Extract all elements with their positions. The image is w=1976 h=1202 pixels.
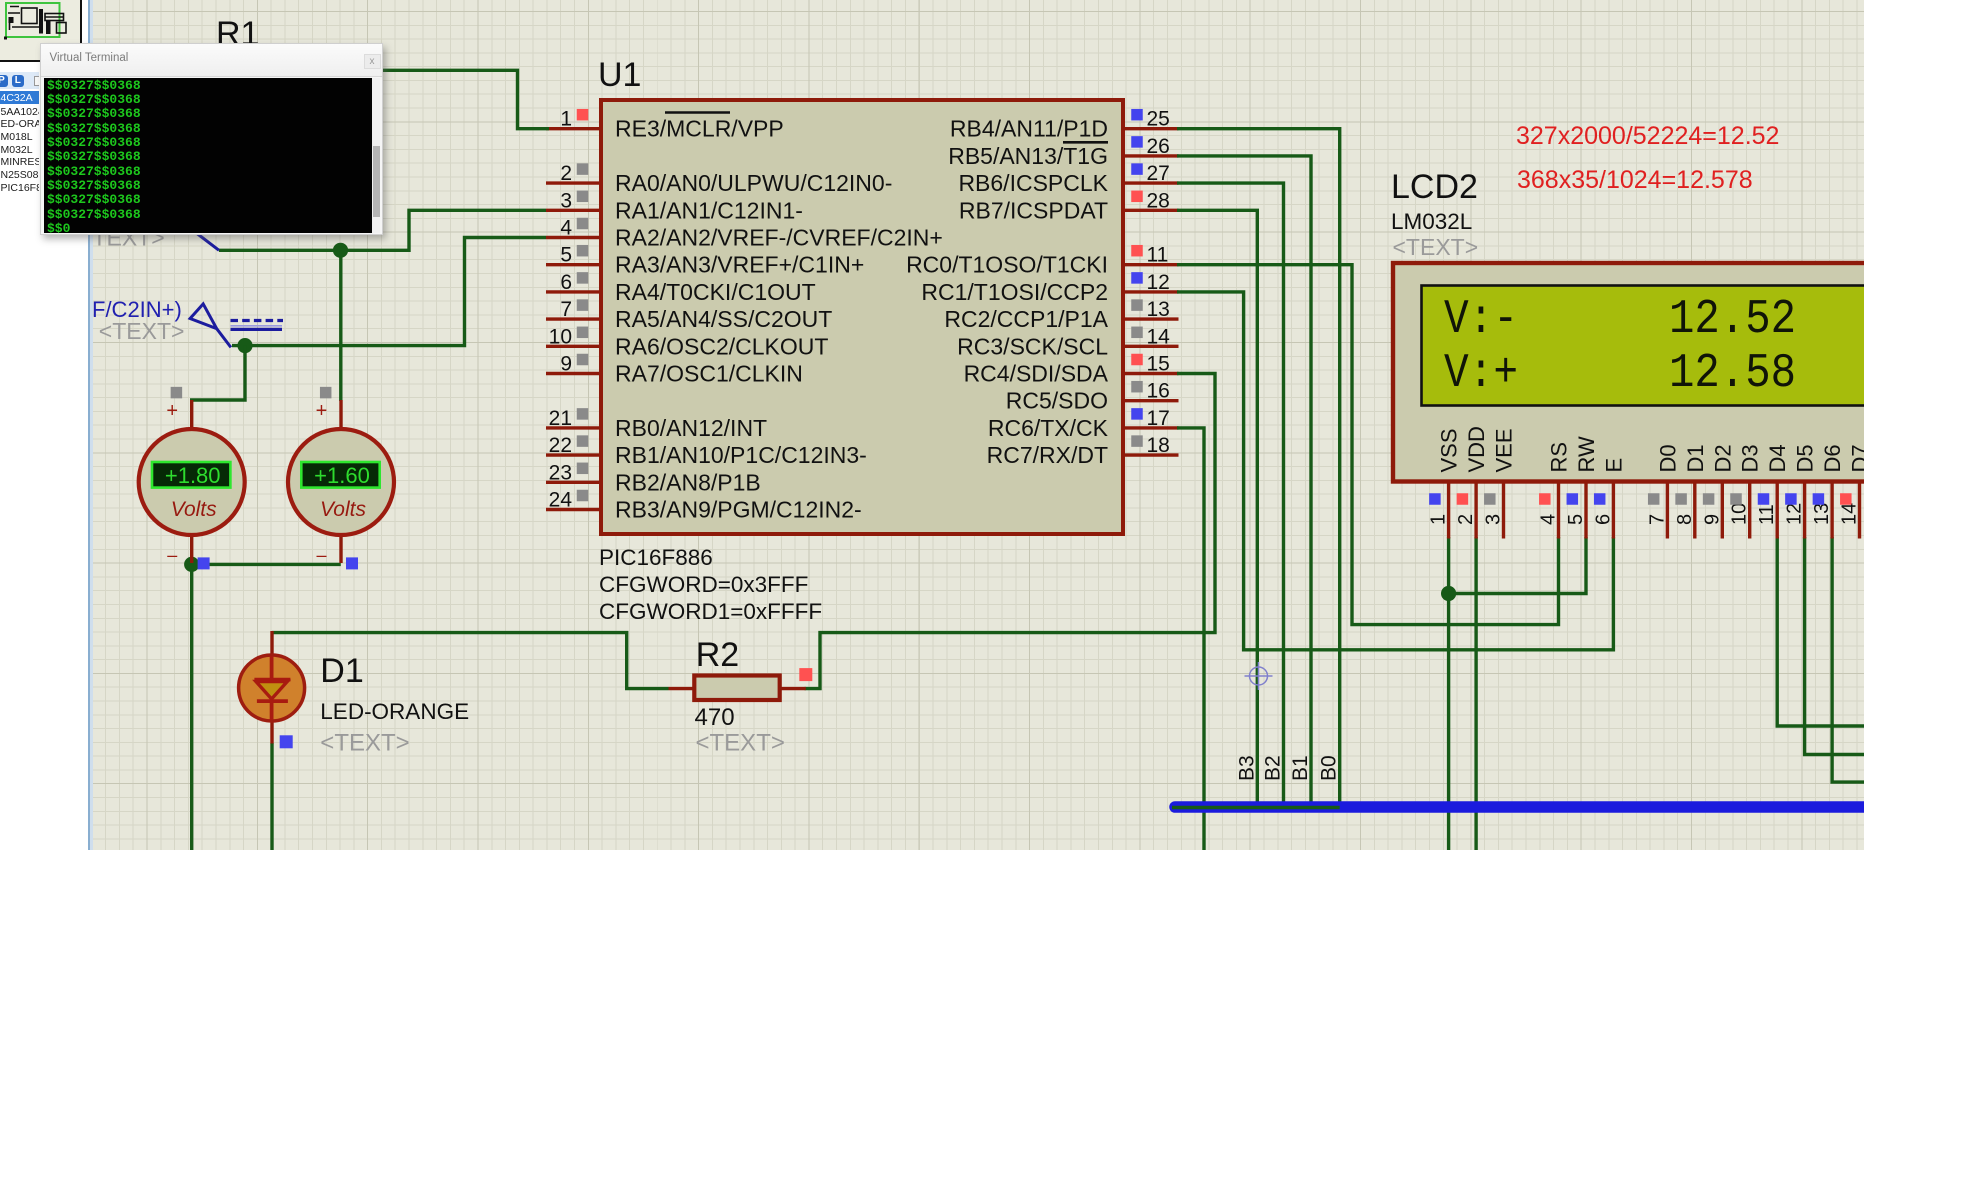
probe P2 triangle — [190, 304, 231, 348]
voltmeter V1 body — [139, 429, 245, 535]
svg-text:3: 3 — [1483, 514, 1505, 525]
svg-text:17: 17 — [1147, 407, 1170, 430]
left edge blue strip — [88, 0, 94, 850]
voltmeter V2 display — [301, 462, 379, 488]
svg-text:RW: RW — [1574, 436, 1599, 472]
voltmeter V1 minus stub — [190, 536, 193, 563]
U1 pin 5 state square — [577, 245, 589, 257]
svg-text:RB1/AN10/P1C/C12IN3-: RB1/AN10/P1C/C12IN3- — [615, 442, 867, 468]
LCD pin 3 state square — [1484, 493, 1496, 505]
svg-text:RE3/MCLR/VPP: RE3/MCLR/VPP — [615, 116, 784, 142]
svg-text:RB6/ICSPCLK: RB6/ICSPCLK — [958, 170, 1108, 196]
U1 pin 15 state square — [1131, 354, 1143, 366]
U1 pin 15 stub — [1123, 372, 1179, 375]
probe P2 solid line highlight — [231, 325, 283, 327]
svg-text:25: 25 — [1147, 108, 1170, 131]
mcu U1 body — [601, 100, 1123, 534]
svg-text:LM032L: LM032L — [1391, 209, 1472, 234]
svg-text:RC0/T1OSO/T1CKI: RC0/T1OSO/T1CKI — [906, 252, 1108, 278]
voltmeter V1 minus square — [198, 557, 210, 569]
R2 pin state square — [799, 668, 812, 681]
svg-text:D2: D2 — [1710, 444, 1735, 472]
svg-text:RS: RS — [1547, 442, 1572, 473]
LCD pin 11 state square — [1758, 493, 1770, 505]
wire U1 pin3 net — [219, 210, 546, 250]
svg-text:<TEXT>: <TEXT> — [1393, 234, 1479, 260]
wire junction to voltmeter V2 plus — [339, 250, 342, 401]
wire R2 right to pin15 — [805, 374, 1216, 689]
LCD pin 12 state square — [1785, 493, 1797, 505]
svg-text:13: 13 — [1811, 503, 1833, 525]
LCD pin 1 state square — [1429, 493, 1441, 505]
parts list — [0, 89, 39, 259]
LCD pin VDD stub — [1474, 483, 1477, 539]
svg-text:RB5/AN13/T1G: RB5/AN13/T1G — [948, 143, 1108, 169]
U1 pin 2 state square — [577, 163, 589, 175]
LCD pin 5 state square — [1567, 493, 1579, 505]
svg-text:D7: D7 — [1848, 444, 1865, 472]
junction node pin4/V1 — [237, 338, 252, 353]
svg-text:RA5/AN4/SS/C2OUT: RA5/AN4/SS/C2OUT — [615, 306, 832, 332]
voltmeter V2 plus stub — [339, 400, 342, 428]
U1 pin 11 state square — [1131, 245, 1143, 257]
svg-text:D3: D3 — [1738, 444, 1763, 472]
svg-text:B3: B3 — [1235, 755, 1258, 781]
svg-text:LED-ORANGE: LED-ORANGE — [320, 699, 469, 724]
U1 pin 2 stub — [546, 181, 601, 184]
svg-text:26: 26 — [1147, 135, 1170, 158]
U1 pin 7 stub — [546, 317, 601, 320]
U1 pin 18 state square — [1131, 435, 1143, 447]
svg-text:3: 3 — [560, 189, 572, 212]
svg-text:22: 22 — [549, 434, 572, 457]
svg-text:U1: U1 — [598, 56, 641, 94]
U1 pin 3 state square — [577, 191, 589, 203]
U1 pin 28 stub — [1123, 209, 1179, 212]
wire U1 pin11 to LCD RS — [1177, 265, 1559, 625]
voltmeter V1 plus square — [171, 387, 183, 399]
svg-text:R2: R2 — [696, 636, 739, 674]
cursor crosshair — [1245, 662, 1273, 690]
led D1 symbol top bar — [254, 678, 290, 682]
led D1 symbol triangle — [256, 682, 287, 700]
voltmeter V1 display — [152, 462, 230, 488]
svg-text:5: 5 — [1565, 514, 1587, 525]
svg-text:VDD: VDD — [1464, 426, 1489, 472]
wire U1 pin28 to bus B3 — [1177, 210, 1257, 808]
svg-text:+: + — [166, 400, 178, 422]
svg-text:RA0/AN0/ULPWU/C12IN0-: RA0/AN0/ULPWU/C12IN0- — [615, 170, 892, 196]
svg-text:16: 16 — [1147, 380, 1170, 403]
U1 pin 27 state square — [1131, 163, 1143, 175]
LCD pin 9 state square — [1703, 493, 1715, 505]
svg-text:Volts: Volts — [320, 498, 366, 521]
svg-text:E: E — [1601, 458, 1626, 473]
svg-text:CFGWORD1=0xFFFF: CFGWORD1=0xFFFF — [599, 599, 822, 624]
svg-text:B0: B0 — [1318, 755, 1341, 781]
U1 pin 21 state square — [577, 408, 589, 420]
svg-text:PIC16F886: PIC16F886 — [599, 545, 713, 570]
svg-text:12.52: 12.52 — [1669, 293, 1796, 347]
svg-text:14: 14 — [1839, 503, 1861, 525]
wire U1 pin27 to bus B2 — [1177, 183, 1284, 808]
wire U1 pin4 net — [232, 238, 546, 346]
svg-text:D4: D4 — [1765, 444, 1790, 472]
LCD pin D7 stub — [1858, 483, 1861, 539]
svg-text:10: 10 — [549, 325, 572, 348]
U1 pin 9 stub — [546, 372, 601, 375]
lcd screen — [1422, 286, 1872, 406]
svg-text:RC1/T1OSI/CCP2: RC1/T1OSI/CCP2 — [921, 279, 1108, 305]
LCD pin RS stub — [1557, 483, 1560, 539]
voltmeter V2 body — [288, 429, 394, 535]
preview viewport green box — [6, 3, 60, 37]
LCD pin 8 state square — [1675, 493, 1687, 505]
wire U1 pin12 to LCD E — [1177, 292, 1613, 650]
svg-text:Volts: Volts — [171, 498, 217, 521]
svg-text:D6: D6 — [1820, 444, 1845, 472]
wire U1 pin17 down — [1177, 428, 1204, 851]
LCD pin D4 stub — [1775, 483, 1778, 539]
svg-text:2: 2 — [560, 162, 572, 185]
svg-text:RB2/AN8/P1B: RB2/AN8/P1B — [615, 469, 761, 495]
svg-text:28: 28 — [1147, 189, 1170, 212]
preview pane — [0, 0, 82, 62]
U1 pin 16 state square — [1131, 381, 1143, 393]
svg-text:RA6/OSC2/CLKOUT: RA6/OSC2/CLKOUT — [615, 333, 828, 359]
wire D1 cathode down — [270, 743, 273, 851]
U1 pin 17 stub — [1123, 426, 1179, 429]
svg-text:14: 14 — [1147, 325, 1171, 348]
svg-text:RC7/RX/DT: RC7/RX/DT — [987, 442, 1108, 468]
U1 pin 4 state square — [577, 218, 589, 230]
svg-text:4: 4 — [560, 217, 572, 240]
wire U1 pin25 to bus B0 — [1177, 129, 1340, 808]
svg-text:+: + — [316, 400, 328, 422]
LCD pin VEE stub — [1502, 483, 1505, 539]
svg-text:7: 7 — [560, 298, 572, 321]
svg-text:11: 11 — [1147, 244, 1169, 267]
U1 pin 23 state square — [577, 463, 589, 475]
svg-text:–: – — [167, 545, 177, 565]
svg-text:2: 2 — [1455, 514, 1477, 525]
wire U1 pin26 to bus B1 — [1177, 156, 1311, 808]
svg-text:327x2000/52224=12.52: 327x2000/52224=12.52 — [1516, 122, 1779, 150]
U1 pin 11 stub — [1123, 263, 1179, 266]
schematic grid canvas — [93, 0, 1864, 850]
U1 pin 22 state square — [577, 435, 589, 447]
probe P2 solid line — [231, 328, 283, 331]
voltmeter V1 plus stub — [190, 400, 193, 428]
U1 pin 14 state square — [1131, 327, 1143, 339]
D1 state square — [280, 735, 293, 748]
svg-text:6: 6 — [1592, 514, 1614, 525]
LCD pin 4 state square — [1539, 493, 1551, 505]
svg-text:12: 12 — [1147, 271, 1170, 294]
svg-text:RB3/AN9/PGM/C12IN2-: RB3/AN9/PGM/C12IN2- — [615, 497, 862, 523]
svg-text:13: 13 — [1147, 298, 1170, 321]
U1 pin 13 state square — [1131, 299, 1143, 311]
svg-text:8: 8 — [1674, 514, 1696, 525]
led D1 body — [239, 655, 305, 721]
svg-text:V:-: V:- — [1444, 293, 1518, 347]
Virtual Terminal window — [40, 43, 383, 235]
bus entry wire — [1172, 806, 1340, 809]
U1 pin 22 stub — [546, 453, 601, 456]
led D1 cathode stub — [270, 721, 273, 744]
svg-text:V:+: V:+ — [1444, 347, 1518, 401]
svg-text:RC3/SCK/SCL: RC3/SCK/SCL — [957, 333, 1108, 359]
wire voltmeter grounds — [192, 563, 341, 566]
LCD pin D3 stub — [1748, 483, 1751, 539]
LCD pin D5 stub — [1803, 483, 1806, 539]
U1 pin 27 stub — [1123, 181, 1179, 184]
svg-text:B1: B1 — [1289, 755, 1312, 781]
U1 pin 10 stub — [546, 345, 601, 348]
preview mini schematic — [8, 7, 66, 34]
svg-text:RA2/AN2/VREF-/CVREF/C2IN+: RA2/AN2/VREF-/CVREF/C2IN+ — [615, 225, 943, 251]
LCD pin VSS stub — [1447, 483, 1450, 539]
svg-text:RB0/AN12/INT: RB0/AN12/INT — [615, 415, 767, 441]
LCD pin D2 stub — [1721, 483, 1724, 539]
junction node VSS — [1441, 586, 1456, 601]
U1 pin 7 state square — [577, 299, 589, 311]
LCD pin 10 state square — [1730, 493, 1742, 505]
U1 pin 10 state square — [577, 327, 589, 339]
svg-text:7: 7 — [1646, 514, 1668, 525]
led D1 symbol cathode bar — [257, 699, 288, 703]
overline MCLR — [665, 111, 730, 114]
svg-text:RC4/SDI/SDA: RC4/SDI/SDA — [964, 361, 1109, 387]
LCD pin 14 state square — [1840, 493, 1852, 505]
U1 pin 26 state square — [1131, 136, 1143, 148]
svg-text:24: 24 — [549, 489, 573, 512]
voltmeter V2 plus square — [320, 387, 332, 399]
svg-text:RB7/ICSPDAT: RB7/ICSPDAT — [959, 197, 1108, 223]
svg-text:VEE: VEE — [1492, 428, 1517, 472]
LCD pin RW stub — [1584, 483, 1587, 539]
svg-text:12.58: 12.58 — [1669, 347, 1796, 401]
svg-text:4: 4 — [1538, 514, 1560, 525]
wire LCD D5 right — [1805, 537, 1865, 755]
LCD pin D0 stub — [1666, 483, 1669, 539]
U1 pin 14 stub — [1123, 345, 1179, 348]
svg-text:5: 5 — [560, 244, 572, 267]
svg-text:LCD2: LCD2 — [1391, 168, 1478, 206]
wire R1 to U1 pin1 — [375, 70, 549, 128]
voltmeter V2 minus stub — [339, 536, 342, 563]
wire LCD D4 right — [1777, 537, 1865, 726]
svg-text:12: 12 — [1784, 503, 1806, 525]
resistor R2 left lead — [669, 687, 696, 690]
svg-text:1: 1 — [560, 108, 572, 131]
svg-text:D1: D1 — [320, 652, 363, 690]
LCD pin 7 state square — [1648, 493, 1660, 505]
LCD pin 13 state square — [1813, 493, 1825, 505]
wire LCD VDD down — [1474, 537, 1477, 851]
svg-text:RC2/CCP1/P1A: RC2/CCP1/P1A — [944, 306, 1108, 332]
svg-text:<TEXT>: <TEXT> — [320, 730, 409, 757]
U1 pin 13 stub — [1123, 317, 1179, 320]
svg-text:9: 9 — [1701, 514, 1723, 525]
svg-text:18: 18 — [1147, 434, 1170, 457]
svg-text:RB4/AN11/P1D: RB4/AN11/P1D — [950, 116, 1108, 142]
wire junction to voltmeter V1 plus — [192, 346, 245, 401]
svg-text:B2: B2 — [1262, 755, 1285, 781]
overline T1G — [1063, 141, 1108, 144]
voltmeter V2 minus square — [346, 557, 358, 569]
LCD pin 6 state square — [1594, 493, 1606, 505]
U1 pin 12 state square — [1131, 272, 1143, 284]
svg-text:<TEXT>: <TEXT> — [99, 318, 185, 344]
svg-text:470: 470 — [695, 704, 735, 731]
U1 pin 1 stub — [546, 127, 601, 130]
U1 pin 3 stub — [546, 209, 601, 212]
svg-text:RA7/OSC1/CLKIN: RA7/OSC1/CLKIN — [615, 361, 803, 387]
svg-text:15: 15 — [1147, 353, 1170, 376]
svg-text:RA4/T0CKI/C1OUT: RA4/T0CKI/C1OUT — [615, 279, 816, 305]
svg-text:23: 23 — [549, 461, 572, 484]
svg-text:27: 27 — [1147, 162, 1170, 185]
wire gnd down — [190, 564, 193, 851]
U1 pin 25 state square — [1131, 109, 1143, 121]
led D1 symbol anode line — [270, 656, 274, 680]
U1 pin 24 state square — [577, 490, 589, 502]
U1 pin 6 state square — [577, 272, 589, 284]
resistor R2 body — [694, 676, 779, 701]
wire LCD D6 right — [1832, 537, 1865, 782]
junction node pin3/V2 — [333, 243, 348, 258]
svg-text:1: 1 — [1428, 514, 1450, 525]
wire VSS to LCD RW — [1449, 537, 1586, 594]
LCD pin D1 stub — [1693, 483, 1696, 539]
U1 pin 25 stub — [1123, 127, 1179, 130]
svg-text:RA3/AN3/VREF+/C1IN+: RA3/AN3/VREF+/C1IN+ — [615, 252, 864, 278]
U1 pin 1 state square — [577, 109, 589, 121]
probe P1 (hidden behind terminal) — [170, 212, 219, 251]
U1 pin 5 stub — [546, 263, 601, 266]
lcd LCD2 body — [1393, 263, 1871, 482]
U1 pin 24 stub — [546, 508, 601, 511]
LCD pin 2 state square — [1457, 493, 1469, 505]
U1 pin 28 state square — [1131, 191, 1143, 203]
svg-text:+1.80: +1.80 — [165, 463, 221, 488]
led D1 anode stub — [270, 631, 273, 655]
U1 pin 4 stub — [546, 236, 601, 239]
U1 pin 26 stub — [1123, 154, 1179, 157]
parts toolbar P/L buttons — [0, 72, 39, 89]
svg-text:21: 21 — [549, 407, 572, 430]
U1 pin 18 stub — [1123, 453, 1179, 456]
svg-text:RC5/SDO: RC5/SDO — [1006, 388, 1108, 414]
wire D1 anode to R2 to U1 pin15 — [272, 633, 669, 689]
svg-text:<TEXT>: <TEXT> — [696, 730, 785, 757]
bus bar — [1175, 801, 1865, 813]
svg-text:11: 11 — [1756, 504, 1778, 525]
junction node gnd — [184, 557, 199, 572]
svg-text:+1.60: +1.60 — [314, 463, 370, 488]
svg-text:–: – — [316, 545, 326, 565]
svg-text:D1: D1 — [1683, 444, 1708, 472]
U1 pin 12 stub — [1123, 290, 1179, 293]
svg-text:VSS: VSS — [1437, 428, 1462, 472]
U1 pin 23 stub — [546, 481, 601, 484]
U1 pin 17 state square — [1131, 408, 1143, 420]
svg-text:9: 9 — [560, 353, 572, 376]
probe P2 dashed line — [231, 319, 284, 322]
LCD pin D6 stub — [1830, 483, 1833, 539]
U1 pin 21 stub — [546, 426, 601, 429]
svg-text:RA1/AN1/C12IN1-: RA1/AN1/C12IN1- — [615, 197, 803, 223]
resistor R2 right lead — [779, 687, 806, 690]
U1 pin 6 stub — [546, 290, 601, 293]
U1 pin 16 stub — [1123, 399, 1179, 402]
U1 pin 9 state square — [577, 354, 589, 366]
led D1 symbol cathode line — [270, 701, 274, 720]
svg-text:6: 6 — [560, 271, 572, 294]
svg-text:10: 10 — [1729, 503, 1751, 525]
wire LCD VSS down — [1447, 537, 1450, 851]
svg-text:D0: D0 — [1655, 444, 1680, 472]
LCD pin E stub — [1612, 483, 1615, 539]
svg-text:CFGWORD=0x3FFF: CFGWORD=0x3FFF — [599, 572, 808, 597]
svg-text:RC6/TX/CK: RC6/TX/CK — [988, 415, 1109, 441]
svg-text:D5: D5 — [1793, 444, 1818, 472]
svg-text:368x35/1024=12.578: 368x35/1024=12.578 — [1517, 166, 1753, 194]
